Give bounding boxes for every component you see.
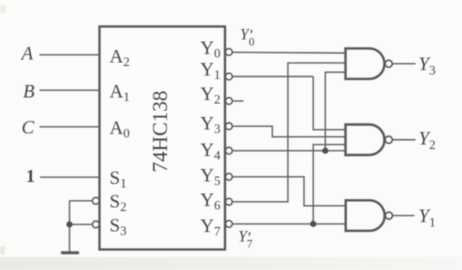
svg-text:0: 0 [249, 37, 255, 49]
wire Y5 to G3 input1 [232, 177, 345, 206]
wire Y4 to G2 input4 [232, 150, 345, 152]
nand gate G2 [346, 125, 385, 156]
nand G3 bubble [385, 212, 392, 219]
svg-text:A: A [20, 44, 34, 65]
output bubble Y7 [226, 221, 233, 228]
svg-text:1: 1 [26, 166, 35, 186]
svg-text:7: 7 [247, 238, 253, 250]
wire Y6 to G1 input2 [232, 63, 345, 202]
decoder U1 74HC138 body [100, 27, 226, 250]
wire B to A1 [40, 89, 100, 91]
wire G2 output [392, 139, 415, 141]
output bubble Y3 [226, 123, 233, 130]
junction S3-ground [66, 221, 72, 227]
wire Y3 to G2 input2 [232, 126, 345, 137]
input bubble S2 [92, 197, 99, 204]
nand gate G3 [346, 200, 385, 231]
wire S2-S3 tie vertical [69, 201, 71, 252]
wire Y7 to G3 input2 [232, 223, 345, 225]
output bubble Y0 [226, 49, 233, 56]
junction Y4-G1 [322, 148, 328, 154]
wire to S2 [70, 200, 93, 202]
nand gate G1 [346, 48, 385, 78]
wire C to A0 [40, 126, 100, 128]
wire Y4 branch to G1 input3 [325, 72, 345, 151]
output bubble Y2 [226, 98, 233, 105]
ground [61, 251, 79, 254]
output bubble Y6 [226, 198, 233, 205]
nand G2 bubble [385, 136, 392, 143]
nand G1 bubble [385, 60, 392, 67]
output bubble Y4 [226, 147, 233, 154]
output bubble Y5 [226, 173, 233, 180]
svg-text:74HC138: 74HC138 [148, 91, 172, 173]
wire Y2 stub [232, 100, 243, 102]
wire logic-1 to S1 [40, 176, 100, 178]
wire Y1 vertical to G2 input1 [313, 77, 345, 130]
output bubble Y1 [226, 73, 233, 80]
wire A to A2 [40, 54, 100, 56]
junction Y7-G2 [310, 221, 316, 227]
svg-text:B: B [23, 82, 35, 103]
wire G1 output [392, 63, 415, 65]
input bubble S3 [92, 221, 99, 228]
wire Y7 branch to G2 input3 [313, 145, 345, 224]
wire Y1 horizontal [232, 76, 313, 78]
svg-text:C: C [22, 118, 35, 139]
wire to S3 [70, 223, 93, 225]
wire Y0 to G1 input1 [232, 51, 345, 54]
wire G3 output [393, 215, 415, 217]
